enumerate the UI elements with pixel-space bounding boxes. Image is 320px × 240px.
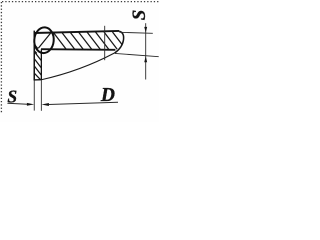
flange section hatching — [53, 31, 134, 49]
flange nose rounded end — [115, 31, 124, 53]
wall extension line right — [40, 80, 42, 110]
wall bottom edge — [34, 79, 42, 81]
svg-text:D: D — [100, 85, 115, 106]
dimension leader under S label — [7, 103, 27, 104]
flange top edge — [34, 31, 119, 33]
bead cross line — [38, 32, 51, 48]
bead outline — [33, 27, 55, 54]
svg-text:S: S — [129, 10, 150, 21]
wall left edge — [33, 31, 35, 81]
spring bead ring (sectioned circle) — [33, 27, 55, 54]
arrow right to wall left edge — [27, 103, 34, 106]
dotted page border top — [2, 1, 159, 3]
wall right edge — [40, 49, 42, 80]
arrow down to nose extension — [144, 27, 147, 33]
sealing lip edge curve — [42, 53, 115, 80]
extension line from lip tip — [115, 53, 159, 56]
bead hatch marks (wall hatch showing at bead lower-left) — [34, 44, 38, 53]
arrow left to wall right edge — [42, 103, 49, 106]
flange bottom edge — [41, 48, 115, 51]
axial wall hatching — [34, 44, 41, 79]
extension line from nose top — [119, 32, 152, 33]
dimension line D — [49, 102, 119, 104]
extension line of D through flange — [104, 26, 106, 60]
svg-text:S: S — [7, 86, 17, 106]
dimension line S right (vertical) — [145, 23, 147, 79]
wall extension line left — [33, 80, 35, 110]
arrow up to lip extension — [144, 56, 147, 62]
dotted page border left — [0, 2, 2, 114]
